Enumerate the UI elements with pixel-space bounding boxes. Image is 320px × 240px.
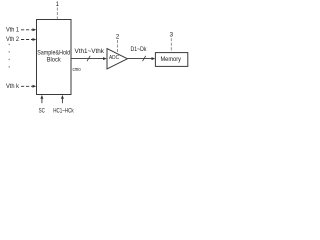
svg-text:Memory: Memory — [160, 56, 181, 63]
leader line for 1 — [56, 8, 58, 20]
svg-text:D1~Dk: D1~Dk — [131, 47, 148, 53]
block U1 Sample&Hold Block — [37, 20, 72, 95]
svg-text:Vth 1: Vth 1 — [6, 28, 20, 34]
svg-text:1: 1 — [56, 2, 60, 8]
leader line for 2 — [117, 40, 119, 54]
label Sample&Hold Block — [37, 50, 70, 63]
op-amp style ADC converter U2 — [107, 49, 128, 70]
svg-text:SC: SC — [39, 108, 46, 114]
wire D1~Dk bus from ADC to Memory — [128, 57, 156, 60]
wire arrow Vth 2 input — [21, 38, 36, 41]
svg-text:cmo: cmo — [73, 67, 81, 73]
wire arrow Vth 1 input — [21, 28, 36, 31]
svg-text:2: 2 — [116, 33, 120, 40]
svg-text:ADC: ADC — [109, 55, 119, 61]
block U3 Memory — [155, 53, 187, 67]
svg-text:Vth1~Vthk: Vth1~Vthk — [75, 48, 105, 55]
svg-text:HC1~HCk: HC1~HCk — [53, 108, 74, 114]
wire arrow HC1~HCk input — [61, 95, 64, 103]
wire arrow SC input — [40, 95, 43, 103]
wire Vth1~Vthk bus from block to ADC — [71, 57, 107, 60]
svg-text:Sample&Hold: Sample&Hold — [37, 50, 70, 56]
svg-text:Vth k: Vth k — [6, 84, 20, 90]
bus slash mark on D bus — [143, 56, 146, 61]
leader line for 3 — [170, 38, 172, 52]
svg-text:Block: Block — [47, 58, 62, 64]
svg-text:Vth 2: Vth 2 — [6, 37, 20, 43]
bus slash mark on Vth bus — [87, 56, 90, 61]
wire arrow Vth k input — [21, 85, 36, 88]
ellipsis dots between Vth 2 and Vth k — [9, 44, 10, 68]
svg-text:3: 3 — [169, 32, 173, 39]
